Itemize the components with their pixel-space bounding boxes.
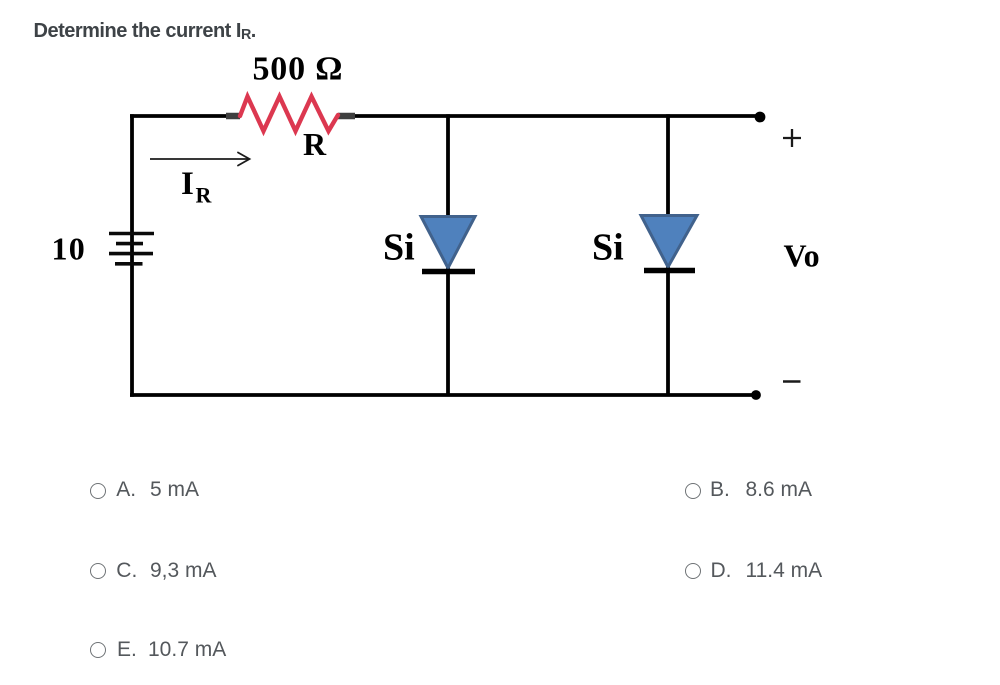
node dot + terminal xyxy=(755,112,766,123)
svg-text:Si: Si xyxy=(592,227,624,269)
svg-text:500 Ω: 500 Ω xyxy=(253,51,344,88)
diode D2 cathode bar xyxy=(644,268,695,273)
option B radio xyxy=(685,483,701,499)
battery V1 plate 3 (long) xyxy=(109,252,153,256)
option D value xyxy=(746,560,823,581)
label - output polarity xyxy=(783,380,801,383)
option A value xyxy=(150,479,199,500)
option D letter xyxy=(711,560,732,581)
circuit schematic xyxy=(0,0,1000,460)
diode D2 triangle xyxy=(641,216,697,268)
wire left vertical through battery xyxy=(130,114,134,397)
resistor R zigzag xyxy=(240,97,338,132)
diode D1 cathode bar xyxy=(422,269,475,274)
wire diode branch 2 vertical xyxy=(666,114,670,395)
option E value xyxy=(148,639,226,660)
svg-text:R: R xyxy=(303,126,327,162)
wire bottom horizontal xyxy=(130,393,756,397)
svg-text:Si: Si xyxy=(383,227,415,269)
svg-text:R: R xyxy=(196,183,213,208)
option C value xyxy=(150,560,217,581)
wire top-right horizontal xyxy=(352,114,760,118)
option A letter xyxy=(116,479,136,500)
svg-text:Vo: Vo xyxy=(784,238,820,274)
svg-text:I: I xyxy=(181,166,194,202)
wire diode branch 1 vertical xyxy=(446,114,450,395)
wire top-left horizontal xyxy=(130,114,238,118)
battery V1 plate 4 (short) xyxy=(115,262,143,266)
battery V1 plate 2 (short) xyxy=(116,242,143,246)
diode D1 triangle xyxy=(421,217,475,269)
option D radio xyxy=(685,563,701,579)
option B value xyxy=(746,479,813,500)
option A radio xyxy=(90,483,106,499)
resistor R lead stub right xyxy=(338,113,355,120)
option C letter xyxy=(116,560,137,581)
node dot - terminal xyxy=(751,390,761,400)
option B letter xyxy=(710,479,730,500)
resistor R lead stub left xyxy=(226,113,240,120)
title xyxy=(34,21,256,41)
arrow for current IR xyxy=(150,153,250,166)
option E radio xyxy=(90,642,106,658)
battery V1 plate 1 (long) xyxy=(109,232,154,236)
option C radio xyxy=(90,563,106,579)
option E letter xyxy=(117,639,137,660)
label + output polarity xyxy=(783,129,801,147)
svg-text:10: 10 xyxy=(52,231,87,267)
